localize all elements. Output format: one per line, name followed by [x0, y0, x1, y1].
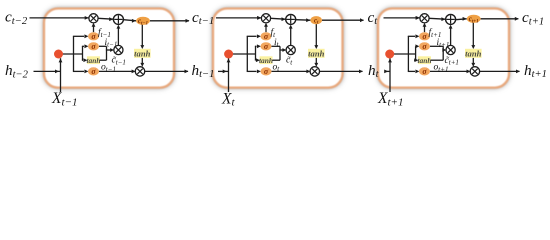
- wire oplus to c-state ellipse: [456, 18, 467, 21]
- tanh candidate gate: [87, 56, 100, 64]
- otimes forget multiply: [420, 14, 429, 23]
- wire tanh to h otimes: [315, 58, 317, 64]
- wire h between cells: [218, 70, 229, 72]
- sigma output gate o_t: [261, 67, 272, 75]
- wire oplus to c-state ellipse: [123, 20, 136, 21]
- LSTM cell 3 rounded box: [378, 9, 509, 88]
- svg-text:σ: σ: [91, 67, 96, 76]
- otimes forget multiply: [261, 14, 270, 23]
- wire tanh to h otimes: [141, 58, 143, 64]
- wire h between cells: [385, 70, 391, 72]
- wire output gate to h otimes: [430, 70, 467, 72]
- wire tanh gate to merge corner: [100, 59, 107, 61]
- otimes output multiply: [135, 67, 144, 76]
- svg-text:tanh: tanh: [308, 48, 324, 58]
- sigma forget gate f_t+1: [419, 32, 430, 40]
- wire mid otimes to oplus: [117, 27, 119, 45]
- sigma input gate i_t+1: [419, 42, 430, 50]
- concat dot (h,x join): [385, 50, 394, 59]
- svg-text:σ: σ: [91, 42, 96, 51]
- svg-text:tanh: tanh: [259, 56, 273, 65]
- tanh on cell state output: [134, 49, 151, 58]
- oplus cell-state add: [113, 14, 123, 24]
- c-state ellipse c_t+1: [467, 15, 481, 23]
- wire input gate to merge corner: [430, 45, 443, 47]
- wire merge to mid otimes: [279, 49, 282, 51]
- wire trunk vertical: [73, 36, 75, 71]
- tanh candidate gate: [418, 56, 431, 64]
- sigma forget gate f_t: [261, 32, 272, 40]
- oplus cell-state add: [446, 14, 456, 24]
- wire trunk to output gate: [247, 70, 257, 72]
- wire forget gate to otimes: [93, 26, 95, 33]
- wire merge to mid otimes: [442, 49, 444, 51]
- svg-text:σ: σ: [264, 67, 269, 76]
- wire h out of cell: [320, 70, 363, 72]
- tanh on cell state output: [308, 49, 325, 58]
- c-state ellipse c_t: [310, 16, 322, 24]
- wire c between cells: [216, 17, 261, 19]
- otimes input multiply: [446, 45, 455, 54]
- wire input gate to merge corner: [272, 45, 281, 47]
- concat dot (h,x join): [54, 50, 63, 59]
- wire bracket to input gate: [255, 45, 257, 47]
- svg-text:σ: σ: [264, 32, 269, 41]
- wire trunk to forget gate: [408, 35, 415, 37]
- svg-text:tanh: tanh: [87, 56, 101, 65]
- wire trunk vertical: [246, 36, 248, 71]
- wire concat-dot to gates: [59, 53, 83, 55]
- c-state ellipse c_t−1: [136, 17, 150, 25]
- svg-text:σ: σ: [264, 42, 269, 51]
- wire X input, node X_t: [228, 58, 230, 92]
- wire bracket to tanh gate: [414, 59, 415, 61]
- svg-text:tanh: tanh: [465, 48, 481, 58]
- sigma output gate o_t−1: [88, 67, 99, 75]
- wire forget gate to otimes: [265, 26, 267, 33]
- wire bracket to tanh gate: [254, 59, 257, 61]
- wire bracket to input gate: [414, 45, 416, 47]
- wire c-state down to tanh: [141, 24, 143, 45]
- wire output gate to h otimes: [272, 70, 307, 72]
- wire c into cell 3: [416, 16, 420, 20]
- wire c into cell 2: [257, 16, 261, 20]
- wire h out of cell: [145, 70, 188, 72]
- oplus cell-state add: [286, 14, 296, 24]
- otimes input multiply: [286, 45, 295, 54]
- wire c-state down to tanh: [472, 22, 474, 45]
- wire trunk to forget gate: [247, 35, 257, 37]
- svg-text:σ: σ: [91, 32, 96, 41]
- svg-text:σ: σ: [422, 42, 427, 51]
- wire h out of cell: [480, 70, 520, 72]
- wire c between cells: [384, 17, 420, 19]
- wire concat-dot to gates: [229, 53, 256, 55]
- otimes forget multiply: [89, 14, 98, 23]
- svg-text:tanh: tanh: [418, 56, 432, 65]
- LSTM cell 2 rounded box: [213, 9, 343, 88]
- wire tanh gate to merge corner: [431, 59, 443, 61]
- wire oplus to c-state ellipse: [296, 19, 311, 22]
- wire output gate to h otimes: [99, 70, 132, 72]
- wire trunk vertical: [407, 36, 409, 71]
- svg-text:tanh: tanh: [134, 48, 150, 58]
- wire tanh gate to merge corner: [273, 59, 281, 61]
- wire otimes to oplus: [429, 17, 446, 20]
- wire c out of cell: [481, 18, 519, 20]
- wire merge corner vertical: [279, 46, 281, 60]
- wire c input: [30, 17, 89, 19]
- otimes output multiply: [470, 67, 479, 76]
- wire trunk to output gate: [408, 70, 415, 72]
- wire bracket vertical: [415, 46, 417, 60]
- wire mid otimes to oplus: [290, 27, 292, 45]
- LSTM cell 1 rounded box: [44, 9, 174, 88]
- wire otimes to oplus: [271, 17, 286, 20]
- wire c out of cell: [322, 19, 364, 21]
- tanh on cell state output: [465, 49, 482, 58]
- wire c into cell 1: [85, 16, 89, 20]
- otimes input multiply: [114, 45, 123, 54]
- wire tanh to h otimes: [472, 58, 474, 64]
- wire merge to mid otimes: [106, 49, 110, 51]
- tanh candidate gate: [260, 56, 273, 64]
- wire merge corner vertical: [106, 46, 108, 60]
- svg-text:σ: σ: [422, 67, 427, 76]
- wire forget gate to otimes: [424, 26, 426, 33]
- wire c out of cell: [150, 20, 189, 22]
- sigma output gate o_t+1: [419, 67, 430, 75]
- otimes output multiply: [310, 67, 319, 76]
- wire input gate to merge corner: [99, 45, 107, 47]
- wire bracket to tanh gate: [82, 59, 83, 61]
- wire X input, node X_t+1: [389, 58, 391, 92]
- concat dot (h,x join): [224, 50, 233, 59]
- wire concat-dot to gates: [390, 53, 416, 55]
- wire bracket to input gate: [82, 45, 84, 47]
- wire trunk to forget gate: [73, 35, 84, 37]
- wire trunk to output gate: [73, 70, 84, 72]
- sigma input gate i_t: [261, 42, 272, 50]
- wire h input: [34, 70, 61, 72]
- wire bracket vertical: [82, 46, 84, 60]
- wire merge corner vertical: [442, 46, 444, 60]
- wire X input, node X_t−1: [60, 58, 62, 92]
- wire bracket vertical: [255, 46, 257, 60]
- wire c-state down to tanh: [315, 24, 317, 46]
- wire otimes to oplus: [98, 17, 113, 20]
- svg-text:σ: σ: [422, 32, 427, 41]
- wire mid otimes to oplus: [450, 27, 452, 45]
- sigma input gate i_t−1: [88, 42, 99, 50]
- sigma forget gate f_t−1: [88, 32, 99, 40]
